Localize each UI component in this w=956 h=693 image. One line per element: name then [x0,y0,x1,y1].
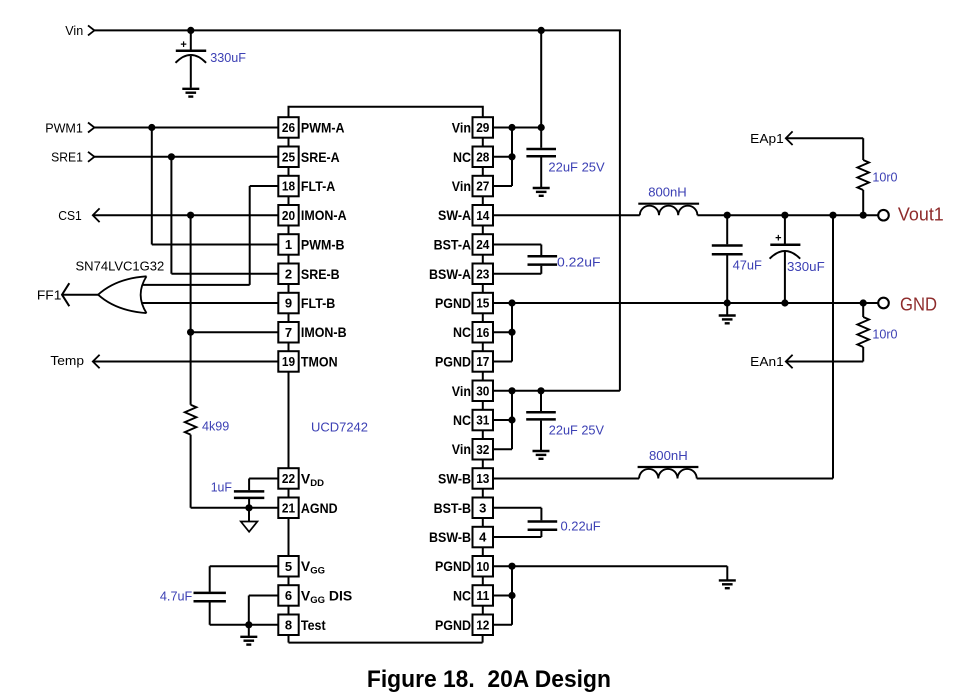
svg-text:4.7uF: 4.7uF [160,588,192,603]
svg-text:26: 26 [282,120,295,135]
wire IMON riser [190,215,192,405]
node FF1 output [37,283,69,306]
svg-text:PGND: PGND [435,295,471,311]
junction GND-10r0 [860,299,867,306]
junction GND-330uF [781,299,788,306]
svg-text:Vin: Vin [452,441,471,457]
pin 5 box [278,556,298,577]
value 0.22uF B [561,519,601,534]
pin 7 box [278,322,298,343]
node PWM1 input [45,121,94,136]
svg-text:18: 18 [282,179,295,194]
pin 17 box [473,351,494,372]
svg-text:1: 1 [285,237,292,252]
pin 20 box [278,205,298,226]
pin 23 box [473,264,494,285]
junction Vin-riser [538,27,545,34]
value 800nH B [649,448,688,463]
pin label PGND 17 [435,354,471,370]
svg-text:10r0: 10r0 [872,170,897,185]
junction PWM1 branch [148,124,155,131]
wire IMON-B [191,331,279,333]
svg-text:SW-B: SW-B [438,471,471,487]
value 22uF 25V B [549,423,604,438]
svg-text:800nH: 800nH [649,448,688,463]
ground G5 [240,625,257,645]
svg-text:11: 11 [476,588,489,603]
svg-text:SRE-A: SRE-A [301,149,340,165]
svg-text:28: 28 [476,149,489,164]
wire IC top edge [289,107,483,117]
svg-text:AGND: AGND [301,500,338,516]
pin 11 box [473,585,494,606]
svg-text:NC: NC [453,412,471,428]
pin label PWM-B [301,237,345,253]
svg-text:Vin: Vin [452,120,471,136]
wire SW-B out [697,215,833,478]
terminal GND [878,298,889,309]
pin label AGND [301,500,338,516]
or-gate U2 SN74LVC1G32 [98,276,146,313]
ground G3 [719,303,736,323]
junction Vout-47uF [724,212,731,219]
pin 22 box [278,468,298,489]
wire CS1 IMON-A [93,214,278,216]
svg-text:14: 14 [476,208,490,223]
junction 512-10 [508,563,515,570]
pin 30 box [473,381,494,402]
ground G2 [533,188,550,196]
svg-text:8: 8 [285,618,292,633]
pin label SRE-B [301,266,340,282]
junction CS1 branch [187,212,194,219]
value 4.7uF [160,588,192,603]
pin 21 box [278,498,298,519]
pin 8 box [278,615,298,636]
wire right pin chain [482,138,484,615]
capacitor 330uF out [770,215,801,303]
svg-text:Vout1: Vout1 [898,204,944,224]
wire gate input A [141,186,278,285]
svg-text:20: 20 [282,208,295,223]
svg-text:Vin: Vin [65,23,83,38]
capacitor 22uF 25V A [526,128,556,188]
pin label TMON [301,354,338,370]
svg-text:27: 27 [476,179,489,194]
pin label IMON-A [301,207,347,223]
svg-text:5: 5 [285,559,292,574]
svg-text:PGND: PGND [435,354,471,370]
pin label Vin 30 [452,383,471,399]
svg-text:22: 22 [282,471,295,486]
value 10r0 bottom [872,326,897,341]
svg-text:GND: GND [900,294,937,314]
svg-text:12: 12 [476,618,489,633]
value 800nH A [648,184,687,199]
pin 3 box [473,498,494,519]
svg-text:24: 24 [476,237,490,252]
pin label Vin 32 [452,441,471,457]
svg-text:Test: Test [301,617,326,633]
pin label PGND 12 [435,617,471,633]
svg-text:0.22uF: 0.22uF [561,519,601,534]
pin 6 box [278,585,298,606]
pin 14 box [473,205,494,226]
junction Vout-330uF [781,212,788,219]
wire 512 riser mid [493,303,512,362]
pin 19 box [278,351,298,372]
pin label SW-B 13 [438,471,471,487]
svg-text:SN74LVC1G32: SN74LVC1G32 [76,259,165,274]
svg-text:3: 3 [479,501,486,516]
wire left pin chain [288,138,290,615]
value 1uF [211,479,232,494]
value 47uF [733,258,762,273]
value 330uF out [787,259,825,274]
wire Vin30 line [493,390,620,392]
wire VGG [210,566,279,592]
pin label NC 28 [453,149,471,165]
svg-text:10: 10 [476,559,489,574]
resistor 4k99 [185,405,197,508]
wire 512 riser low [493,391,512,449]
svg-text:0.22uF: 0.22uF [557,254,601,269]
pin label BST-B 3 [434,500,471,516]
wire PGND15 line [493,302,878,304]
junction IMON-B [187,329,194,336]
svg-text:UCD7242: UCD7242 [311,420,368,435]
pin label NC 31 [453,412,471,428]
value 22uF 25V A [548,159,605,174]
pin label NC 16 [453,324,471,340]
svg-text:Temp: Temp [50,353,84,368]
pin label NC 11 [453,588,471,604]
resistor 10r0 top [857,160,869,215]
junction 512-15 [508,299,515,306]
svg-text:19: 19 [282,354,295,369]
svg-text:SRE-B: SRE-B [301,266,340,282]
svg-text:NC: NC [453,324,471,340]
svg-text:IMON-B: IMON-B [301,324,347,340]
pin label SRE-A [301,149,340,165]
pin label VDD [301,471,324,490]
svg-text:+: + [180,39,186,51]
pin 15 box [473,293,494,314]
svg-text:NC: NC [453,149,471,165]
svg-text:BST-A: BST-A [434,237,471,253]
svg-text:25: 25 [282,149,295,164]
label SN74LVC1G32 [76,259,165,274]
pin label Vin 29 [452,120,471,136]
pin label FLT-A [301,178,335,194]
svg-text:PGND: PGND [435,558,471,574]
pin 18 box [278,176,298,197]
svg-text:EAn1: EAn1 [750,354,784,369]
pin label BSW-A 23 [429,266,471,282]
pin label BST-A 24 [434,237,471,253]
svg-text:BSW-B: BSW-B [429,529,471,545]
svg-text:Vin: Vin [452,178,471,194]
wire EAp1 [786,138,863,160]
pin 24 box [473,234,494,255]
junction 512-11 [508,592,515,599]
value 0.22uF A [557,254,601,269]
svg-text:10r0: 10r0 [872,326,897,341]
wire Vin29 stub [493,127,541,129]
pin 13 box [473,468,494,489]
ground G1 [182,89,199,97]
pin label IMON-B [301,324,347,340]
wire TMON to VDD [288,372,290,468]
capacitor 4.7uF [194,593,226,625]
pin 26 box [278,117,298,138]
junction 512-16 [508,329,515,336]
pin 4 box [473,527,494,548]
svg-text:FLT-B: FLT-B [301,295,335,311]
analog ground triangle [241,508,258,532]
svg-text:16: 16 [476,325,489,340]
pin 28 box [473,147,494,168]
pin label VGG DIS [301,588,352,607]
svg-text:PWM-A: PWM-A [301,120,345,136]
junction Vout-SWB [829,212,836,219]
value 10r0 top [872,170,897,185]
junction AGND node [245,504,252,511]
pin 12 box [473,615,494,636]
wire Test to PGND12 [289,635,483,643]
wire EAn1 [786,347,863,362]
svg-text:IMON-A: IMON-A [301,207,347,223]
pin 32 box [473,439,494,460]
wire Vin rail [94,30,621,390]
svg-text:+: + [775,233,781,245]
wire Temp TMON [93,361,278,363]
inductor 800nH A [638,204,699,216]
wire Vin riser to 29 [540,30,542,127]
pin label BSW-B 4 [429,529,471,545]
svg-text:PWM1: PWM1 [45,121,83,136]
ground G4 [533,451,550,459]
svg-text:6: 6 [285,588,292,603]
svg-text:4: 4 [479,530,487,545]
capacitor 22uF 25V B [526,391,556,450]
svg-text:15: 15 [476,296,489,311]
svg-text:Vin: Vin [452,383,471,399]
terminal Vout1 [878,210,889,221]
junction VGG gnd node [245,621,252,628]
wire PWM1 [94,127,278,129]
svg-text:SRE1: SRE1 [51,149,83,164]
svg-text:BST-B: BST-B [434,500,471,516]
wire AGND to VGG [288,518,290,556]
pin 25 box [278,147,298,168]
wire PWM1 to PWM-B [152,128,278,245]
junction GND-47uF [724,299,731,306]
pin label PWM-A [301,120,345,136]
pin label VGG [301,558,325,577]
junction 512-31 [508,416,515,423]
svg-text:21: 21 [282,501,295,516]
wire FF1 [62,294,98,296]
junction 541-29 [538,124,545,131]
svg-text:FF1: FF1 [37,287,62,302]
ground G6 [719,580,736,588]
svg-text:FLT-A: FLT-A [301,178,335,194]
resistor 10r0 bottom [857,303,869,347]
node SRE1 input [51,149,94,164]
svg-text:47uF: 47uF [733,258,762,273]
svg-text:VGG DIS: VGG DIS [301,588,352,607]
svg-text:31: 31 [476,413,489,428]
label UCD7242 [311,420,368,435]
wire 512 riser top [493,128,512,187]
svg-text:BSW-A: BSW-A [429,266,471,282]
wire NC16 stub [493,331,512,333]
wire 512 riser bottom [493,566,512,625]
svg-text:7: 7 [285,325,292,340]
svg-text:PGND: PGND [435,617,471,633]
pin label FLT-B [301,295,335,311]
capacitor 330uF input [176,30,207,87]
junction 512-29 [508,124,515,131]
svg-text:32: 32 [476,442,489,457]
pin label SW-A 14 [438,207,471,223]
svg-text:330uF: 330uF [787,259,825,274]
wire SW-B [493,478,639,480]
node CS1 output [58,208,99,223]
value 4k99 [202,418,229,433]
svg-text:22uF 25V: 22uF 25V [548,159,605,174]
wire SW-A [493,214,640,216]
junction 512-28 [508,153,515,160]
wire VGGDIS [249,596,278,625]
value 330uF [210,50,246,65]
node Temp output [50,353,99,368]
wire gate input B [141,302,278,304]
wire SRE1 [94,156,278,158]
label GND [900,294,937,314]
svg-text:30: 30 [476,383,489,398]
pin 29 box [473,117,494,138]
junction 512-30 [508,387,515,394]
pin 2 box [278,264,298,285]
wire AGND [191,507,279,509]
pin 10 box [473,556,494,577]
svg-text:22uF 25V: 22uF 25V [549,423,604,438]
node EAp1 [750,131,792,146]
svg-text:29: 29 [476,120,489,135]
svg-text:13: 13 [476,471,489,486]
inductor 800nH B [638,467,699,479]
svg-text:CS1: CS1 [58,208,82,223]
pin label Vin 27 [452,178,471,194]
svg-text:SW-A: SW-A [438,207,471,223]
pin label PGND 15 [435,295,471,311]
capacitor 0.22uF A [493,245,557,274]
svg-text:9: 9 [285,296,292,311]
svg-text:330uF: 330uF [210,50,246,65]
pin 9 box [278,293,298,314]
wire SRE1 to SRE-B [171,157,278,274]
capacitor 47uF [712,215,743,303]
wire NC11 stub [493,595,512,597]
junction Vin-C1 [187,27,194,34]
wire NC31 stub [493,419,512,421]
svg-text:PWM-B: PWM-B [301,237,345,253]
capacitor 1uF [234,479,278,508]
svg-text:17: 17 [476,354,489,369]
wire Test bottom [210,624,279,626]
svg-text:TMON: TMON [301,354,338,370]
svg-text:23: 23 [476,266,489,281]
wire SW-A out [697,214,877,216]
pin label PGND 10 [435,558,471,574]
svg-text:800nH: 800nH [648,184,687,199]
pin 27 box [473,176,494,197]
node EAn1 [750,354,792,369]
wire PGND10 line [493,566,727,579]
svg-text:Figure 18. 20A Design: Figure 18. 20A Design [367,666,611,693]
junction SRE1 branch [168,153,175,160]
pin 1 box [278,234,298,255]
svg-text:4k99: 4k99 [202,418,229,433]
pin 16 box [473,322,494,343]
label Vout1 [898,204,944,224]
svg-text:NC: NC [453,588,471,604]
capacitor 0.22uF B [493,508,557,537]
pin 31 box [473,410,494,431]
junction Vout-10r0 [860,212,867,219]
svg-text:2: 2 [285,266,292,281]
pin label Test [301,617,326,633]
junction 541-30 [537,387,544,394]
svg-text:EAp1: EAp1 [750,131,784,146]
node Vin input label [65,23,94,38]
svg-text:1uF: 1uF [211,479,232,494]
wire NC28 stub [493,156,512,158]
caption Figure 18. 20A Design [367,666,611,693]
